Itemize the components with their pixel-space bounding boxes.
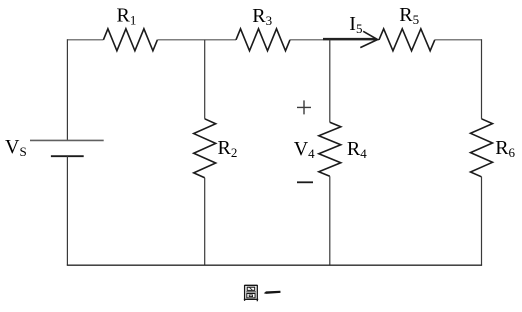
resistor R3 bbox=[236, 29, 290, 51]
wire top rail left segment bbox=[67, 39, 103, 41]
resistor R5 bbox=[379, 29, 435, 51]
wire left rail upper bbox=[66, 39, 68, 140]
wire node3 column upper bbox=[329, 40, 331, 123]
resistor R6 bbox=[471, 119, 493, 177]
wire left rail lower bbox=[66, 156, 68, 265]
battery Vs bottom plate bbox=[51, 155, 84, 157]
wire bottom rail bbox=[67, 264, 482, 266]
wire node2 column lower bbox=[204, 178, 206, 265]
polarity minus sign bbox=[297, 181, 313, 183]
wire right rail lower bbox=[481, 177, 483, 265]
current arrow I5 head bbox=[360, 31, 377, 47]
wire right rail upper bbox=[481, 39, 483, 119]
current arrow I5 shaft bbox=[323, 38, 376, 40]
wire R5 to top-right corner bbox=[435, 39, 482, 41]
resistor R2 bbox=[194, 119, 216, 178]
resistor R4 bbox=[319, 122, 341, 176]
battery Vs top plate bbox=[30, 139, 104, 141]
wire between R1 and R3 bbox=[157, 39, 236, 41]
resistor R1 bbox=[103, 29, 157, 51]
wire node3 column lower bbox=[329, 176, 331, 265]
polarity plus sign bbox=[297, 100, 311, 114]
wire between R3 and R5 bbox=[290, 39, 379, 41]
wire node2 column upper bbox=[204, 40, 206, 119]
caption glyph 圖 (Figure) bbox=[244, 285, 258, 301]
caption glyph 一 (one) bbox=[264, 291, 281, 294]
